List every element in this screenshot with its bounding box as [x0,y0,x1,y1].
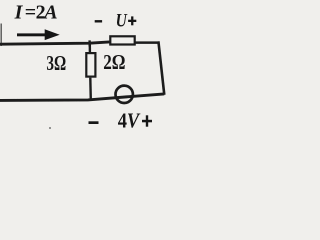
svg-text:2Ω: 2Ω [103,50,125,74]
svg-text:U: U [116,11,129,31]
svg-text:3Ω: 3Ω [46,51,66,75]
svg-text:4V: 4V [118,109,141,133]
label plus (right of U) [128,20,136,22]
wire (lead from resistor down to bottom wire) [89,78,92,101]
label minus (left of 4V) [89,121,99,124]
node A (junction tick at top of 3-ohm branch) [88,40,90,46]
wire bottom [0,94,164,101]
label I = 2A [14,2,152,133]
wire right vertical [158,41,164,94]
label plus (right of 4V) [142,120,152,123]
wire top right (resistor to corner) [136,41,160,44]
resistor 2-ohm vertical body [86,53,95,77]
voltage source 4V circle [116,86,133,103]
scan artifact at left edge [0,24,2,47]
svg-text:I: I [14,2,24,24]
wire (lead from node down to resistor) [89,43,91,53]
current arrow for I [17,29,60,40]
svg-text:=: = [25,2,36,24]
speck (scan dot) [49,127,51,129]
resistor top horizontal body (U across it) [110,36,134,44]
wire top (left segment, from left edge to 2-ohm resistor) [0,42,110,44]
label minus (left of U) [95,20,102,22]
svg-text:A: A [42,2,57,24]
